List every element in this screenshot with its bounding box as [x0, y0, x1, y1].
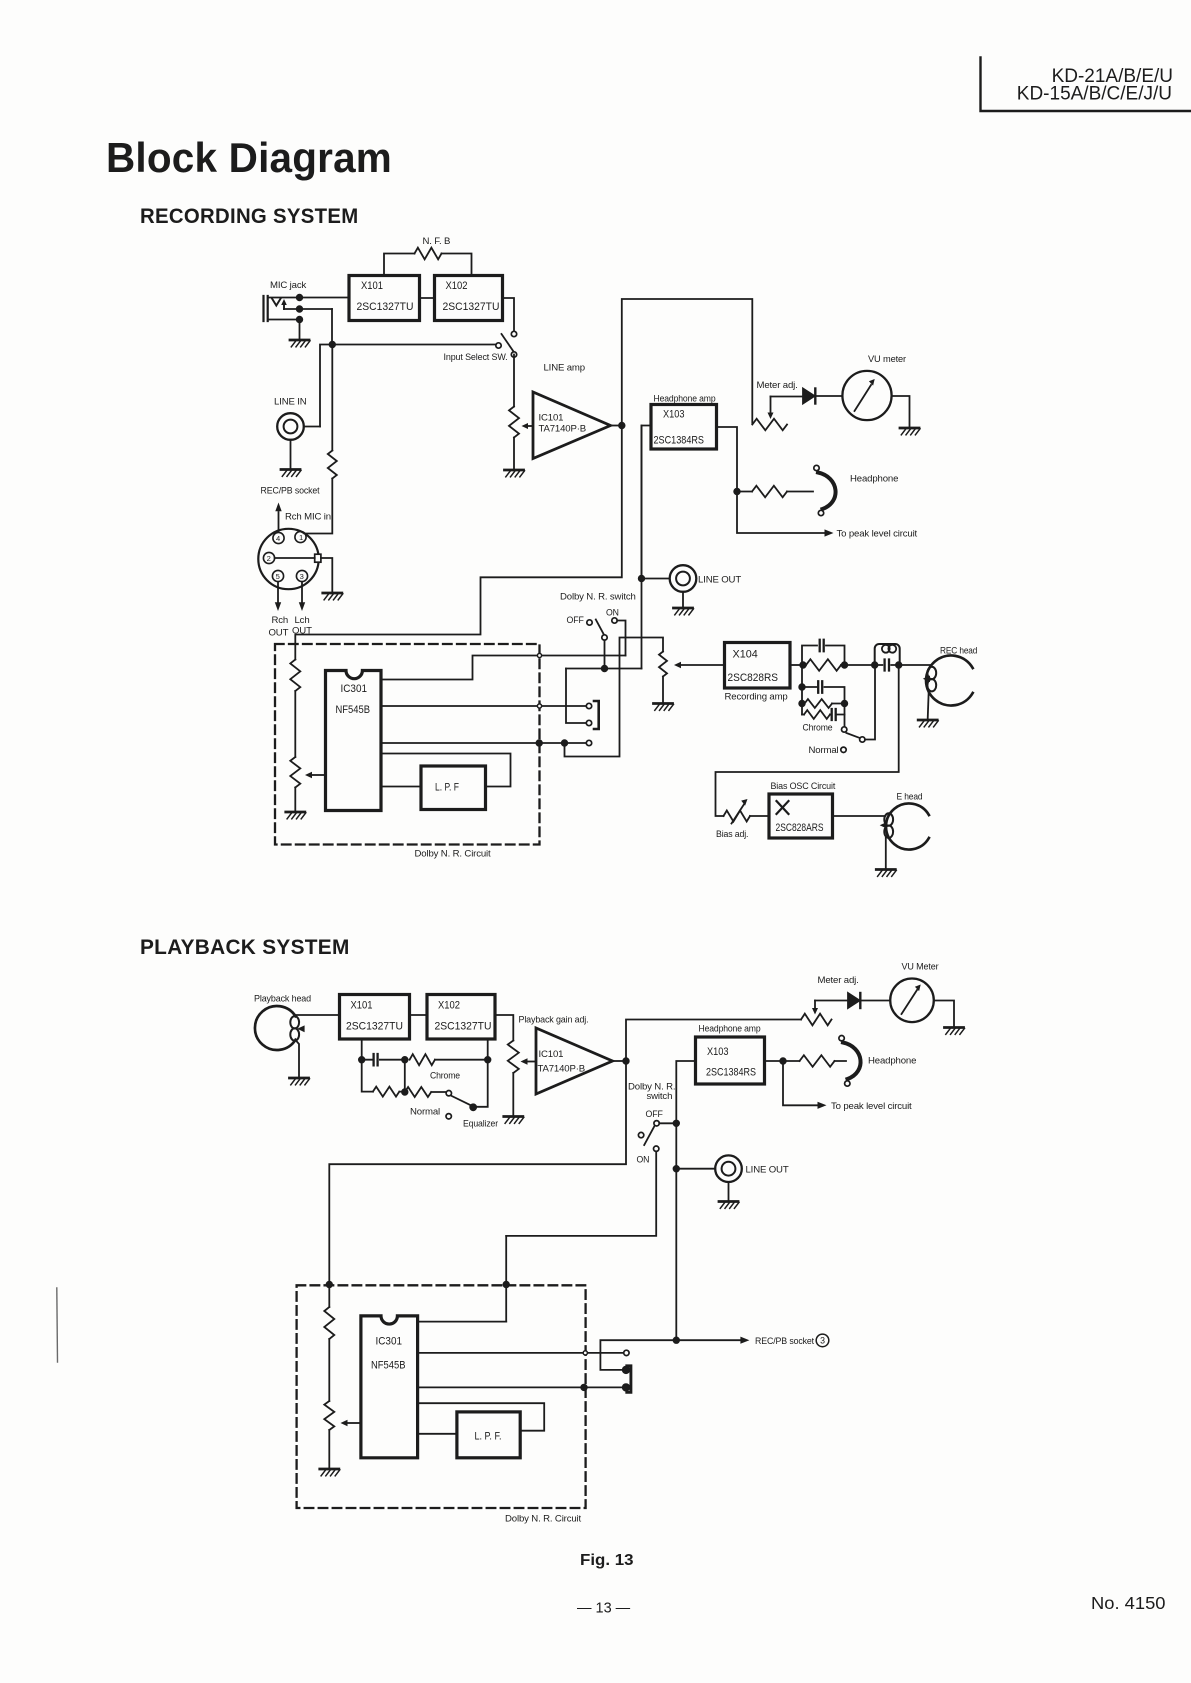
svg-text:1: 1: [299, 533, 303, 542]
wire bias feed: [716, 665, 899, 816]
node: REC/PB junction: [674, 1337, 680, 1343]
resistor on Rch MIC line: [305, 345, 337, 534]
connector REC/PB contacts (recording): [586, 701, 598, 746]
node: OFF junction: [674, 1121, 680, 1127]
op-amp IC101 (playback): [536, 1028, 613, 1094]
wire X101-X102 (playback): [410, 1014, 428, 1016]
arrow Lch OUT down: [292, 582, 312, 637]
headphone symbol: [814, 465, 898, 515]
svg-text:X102: X102: [438, 1000, 460, 1012]
wire to REC/PB contact: [566, 669, 586, 724]
wire diode to VU meter: [815, 395, 842, 397]
svg-text:REC/PB socket: REC/PB socket: [755, 1336, 814, 1347]
ground (LINE OUT): [674, 592, 694, 615]
node: border marker B (playback): [583, 1351, 587, 1355]
wire to LINE OUT (playback): [676, 1168, 715, 1170]
capacitor X101 eq branch: [362, 1039, 405, 1065]
potentiometer Meter adj.: [752, 380, 797, 430]
meter: VU Meter (playback): [890, 962, 939, 1023]
svg-text:5: 5: [276, 572, 280, 581]
wire X103 output: [717, 427, 738, 492]
node: eq a: [359, 1057, 365, 1063]
wire eq right rail down: [476, 1060, 488, 1107]
svg-text:MIC jack: MIC jack: [270, 280, 306, 291]
wire IC301 pin E to LPF in: [381, 786, 421, 788]
potentiometer Bias adj.: [716, 799, 750, 840]
wire: MIC top contact to X101: [300, 297, 350, 299]
wire X101-X102: [420, 297, 435, 299]
wire IC301 pin C to contact: [381, 742, 586, 744]
svg-text:Headphone: Headphone: [850, 474, 898, 485]
ground (VU meter): [900, 428, 920, 435]
resistor+capacitor chrome row C: [802, 704, 845, 727]
node: border crossing bus: [327, 1282, 333, 1288]
svg-text:2SC1327TU: 2SC1327TU: [443, 301, 500, 313]
oscillator Bias OSC Circuit: [769, 781, 836, 838]
wire OFF contact to node: [659, 1122, 676, 1124]
svg-text:Playback gain adj.: Playback gain adj.: [519, 1015, 589, 1026]
node: chrome rail b: [799, 701, 805, 707]
svg-text:LINE amp: LINE amp: [544, 363, 585, 374]
capacitor C top (rec eq): [802, 640, 845, 665]
node: chrome right: [842, 701, 848, 707]
svg-text:Dolby N. R. Circuit: Dolby N. R. Circuit: [415, 849, 492, 860]
node: headphone branch (playback): [780, 1058, 786, 1064]
ground (dolby pot playback): [320, 1469, 340, 1476]
E head: [880, 792, 929, 850]
ground (MIC jack): [290, 320, 310, 347]
node: headphone branch: [734, 489, 740, 495]
svg-text:OUT: OUT: [269, 628, 289, 639]
svg-text:Fig. 13: Fig. 13: [580, 1552, 634, 1569]
svg-text:N. F. B: N. F. B: [423, 236, 451, 247]
svg-text:Headphone: Headphone: [868, 1056, 916, 1067]
resistor R main (rec eq): [803, 659, 845, 671]
node: eq d: [402, 1089, 408, 1095]
svg-text:E head: E head: [897, 792, 923, 803]
svg-text:X102: X102: [446, 280, 468, 292]
potentiometer dolby level (recording): [290, 757, 325, 811]
svg-text:Equalizer: Equalizer: [463, 1119, 499, 1130]
svg-text:3: 3: [820, 1336, 825, 1346]
svg-text:RECORDING SYSTEM: RECORDING SYSTEM: [140, 205, 359, 228]
wire pot to bias osc: [750, 815, 769, 817]
IC IC301 NF545B (playback): [361, 1316, 418, 1458]
svg-text:4: 4: [276, 534, 280, 543]
svg-text:2SC1327TU: 2SC1327TU: [357, 301, 414, 313]
wire switch common rail: [566, 668, 642, 670]
contact pin B open: [624, 1350, 629, 1355]
svg-text:2SC1384RS: 2SC1384RS: [706, 1067, 756, 1079]
filter L.P.F (recording): [421, 766, 486, 810]
wire op-amp output: [611, 425, 622, 427]
transistor X101 (playback): [340, 995, 410, 1040]
transistor X103 Headphone amp (playback): [696, 1024, 765, 1085]
ground (dolby pot recording): [286, 812, 306, 819]
svg-text:Dolby N. R. switch: Dolby N. R. switch: [560, 592, 636, 603]
wire playback head to X101: [295, 1014, 340, 1016]
svg-text:TA7140P·B: TA7140P·B: [539, 424, 587, 435]
dashed box Dolby N.R. Circuit (recording): [275, 644, 540, 845]
node: switch pivot junction: [602, 666, 608, 672]
wire VU meter to ground: [892, 396, 910, 427]
svg-text:Chrome: Chrome: [803, 723, 833, 734]
wire IC301 pin B (playback): [418, 1352, 624, 1354]
svg-text:Normal: Normal: [809, 745, 839, 756]
svg-text:X101: X101: [361, 280, 383, 292]
wire bias osc to E head: [833, 815, 885, 817]
svg-text:L. P. F.: L. P. F.: [475, 1431, 502, 1443]
wire dolby in riser (playback): [505, 1236, 507, 1322]
wire to REC head: [899, 664, 930, 666]
node: dashed border marker B: [537, 704, 541, 708]
resistor headphone (playback): [783, 1055, 846, 1067]
svg-text:Dolby N. R. Circuit: Dolby N. R. Circuit: [505, 1514, 582, 1525]
svg-text:X103: X103: [663, 409, 685, 421]
svg-text:Rch MIC in: Rch MIC in: [285, 512, 331, 523]
svg-text:L. P. F: L. P. F: [435, 782, 459, 794]
node: border junction C: [536, 740, 542, 746]
svg-text:REC/PB socket: REC/PB socket: [261, 486, 320, 497]
potentiometer Meter adj. (playback): [801, 975, 859, 1025]
node: chrome rail a: [799, 684, 805, 690]
svg-text:IC101: IC101: [539, 1049, 564, 1060]
headphone symbol (playback): [839, 1036, 916, 1087]
svg-text:Input Select SW.: Input Select SW.: [444, 352, 508, 363]
svg-text:To peak level circuit: To peak level circuit: [831, 1101, 912, 1112]
svg-text:Meter adj.: Meter adj.: [757, 380, 798, 391]
wire IC301 pin D (playback): [418, 1403, 545, 1431]
ground (REC level pot): [654, 704, 674, 711]
transformer bias trap: [875, 644, 900, 665]
node: bypass branch: [562, 740, 568, 746]
ground (REC/PB socket): [323, 593, 343, 600]
node: eq b: [402, 1057, 408, 1063]
svg-text:LINE IN: LINE IN: [274, 397, 307, 408]
meter: VU meter: [842, 354, 907, 420]
resistor N.F.B feedback: [384, 236, 472, 276]
potentiometer dolby level (playback): [324, 1401, 361, 1468]
svg-text:No. 4150: No. 4150: [1091, 1593, 1166, 1613]
wire bus up to meter adj: [622, 299, 753, 426]
svg-text:Headphone amp: Headphone amp: [654, 394, 716, 405]
svg-text:2SC1327TU: 2SC1327TU: [346, 1021, 403, 1033]
svg-text:2SC828ARS: 2SC828ARS: [776, 822, 824, 834]
wire to peak level (playback): [783, 1061, 912, 1112]
node: playback amp out: [623, 1058, 629, 1064]
svg-text:To peak level circuit: To peak level circuit: [837, 529, 918, 540]
connector: LINE OUT jack (playback): [715, 1155, 789, 1182]
wire IC301 pin B to contact: [381, 705, 586, 707]
node: line out junction: [639, 576, 645, 582]
arrow REC/PB socket: [740, 1334, 828, 1347]
connector: LINE OUT jack: [670, 565, 742, 592]
svg-text:OUT: OUT: [292, 626, 312, 637]
resistor dolby input (playback): [324, 1307, 334, 1401]
ground (LINE OUT playback): [719, 1182, 739, 1208]
switch: Dolby N.R. (recording): [560, 592, 636, 669]
svg-text:OFF: OFF: [646, 1109, 663, 1120]
wire to peak level circuit: [737, 492, 918, 540]
wire eq to transformer: [845, 664, 875, 666]
potentiometer REC level: [659, 652, 667, 703]
svg-text:LINE OUT: LINE OUT: [698, 575, 741, 586]
svg-text:switch: switch: [647, 1091, 673, 1102]
svg-text:X104: X104: [733, 649, 758, 661]
arrow pin4 REC/PB up: [275, 503, 281, 533]
svg-text:Block Diagram: Block Diagram: [106, 134, 392, 181]
wire bus down to dolby resistor (playback): [329, 1061, 626, 1307]
ground (E head): [876, 838, 896, 877]
IC IC301 NF545B (recording): [326, 671, 382, 811]
wire X102 bottom pin: [487, 1041, 489, 1060]
svg-text:2SC1384RS: 2SC1384RS: [654, 435, 705, 447]
wire: LINE IN / MIC ring to switch: [320, 345, 496, 427]
ground (LINE amp pot): [505, 470, 525, 477]
svg-text:IC301: IC301: [341, 683, 368, 695]
wire IC301 pin D to LPF out: [381, 754, 511, 787]
MIC jack: [264, 295, 333, 323]
wire IC301 pin A (playback): [418, 1321, 507, 1323]
ground (gain pot): [504, 1117, 524, 1124]
wire VU to ground (playback): [934, 1001, 954, 1027]
wire bypass to rec level pot: [565, 638, 664, 757]
wire X104 output: [790, 664, 803, 666]
svg-text:VU meter: VU meter: [868, 354, 907, 365]
connector: LINE IN jack: [274, 397, 320, 440]
wire op-amp out (playback): [613, 1060, 627, 1062]
node: eq c: [485, 1057, 491, 1063]
svg-text:3: 3: [300, 572, 304, 581]
ground (VU playback): [945, 1028, 965, 1035]
transistor X104 Recording amp: [725, 643, 791, 703]
wire bus down-left to dolby resistor: [295, 426, 622, 660]
wire ON contact to dolby in: [617, 621, 625, 656]
node: line amp output: [619, 423, 625, 429]
switch: Dolby N.R. (playback): [628, 1082, 675, 1166]
resistor headphone feed: [737, 486, 813, 498]
switch: Input Select SW: [444, 331, 517, 363]
wire REC/PB socket out: [600, 1340, 741, 1370]
svg-text:ON: ON: [606, 608, 619, 619]
svg-text:OFF: OFF: [567, 615, 584, 626]
transistor X101: [349, 276, 420, 321]
potentiometer at LINE amp input: [509, 355, 533, 470]
connector REC/PB contacts (playback): [623, 1366, 631, 1393]
wire bus to meter (playback): [626, 1020, 801, 1062]
svg-text:NF545B: NF545B: [336, 704, 371, 716]
svg-text:PLAYBACK SYSTEM: PLAYBACK SYSTEM: [140, 936, 350, 959]
transistor X102: [435, 276, 503, 321]
wire IC301 pin C (playback): [418, 1386, 624, 1388]
wire X104 input arrow: [674, 662, 725, 668]
svg-text:2: 2: [267, 554, 271, 563]
wire ON contact down to dolby: [506, 1152, 656, 1236]
dashed box Dolby N.R. Circuit (playback): [297, 1285, 586, 1508]
svg-text:Normal: Normal: [410, 1107, 440, 1118]
wire X102 to gain pot: [495, 1015, 513, 1041]
resistor dolby input (recording): [290, 660, 300, 758]
wire X102 to input select switch: [503, 298, 515, 331]
svg-text:Playback head: Playback head: [254, 994, 311, 1005]
resistor chrome eq (playback): [410, 1054, 488, 1081]
svg-text:2SC828RS: 2SC828RS: [728, 672, 779, 684]
svg-text:Chrome: Chrome: [430, 1071, 460, 1082]
diode: [803, 389, 815, 404]
wire X103 input (playback): [676, 1061, 695, 1340]
svg-text:TA7140P·B: TA7140P·B: [538, 1064, 586, 1075]
arrow Rch OUT down: [269, 582, 289, 639]
wire eq d riser: [404, 1060, 406, 1092]
playback head: [254, 994, 311, 1051]
header bracket rule: [981, 58, 1191, 112]
switch Equalizer: [410, 1091, 499, 1130]
svg-text:Rch: Rch: [272, 615, 289, 626]
node: mic ring junction: [330, 309, 336, 347]
svg-text:ON: ON: [637, 1155, 650, 1166]
wire wiper to diode (playback): [815, 1000, 848, 1002]
wire X103 output (playback): [765, 1060, 784, 1062]
svg-text:IC101: IC101: [539, 413, 564, 424]
node: dashed border marker A: [537, 653, 541, 657]
svg-text:X103: X103: [707, 1046, 729, 1058]
svg-text:Headphone amp: Headphone amp: [699, 1024, 761, 1035]
node: line out junction (playback): [674, 1166, 680, 1172]
svg-text:Recording amp: Recording amp: [725, 692, 788, 703]
svg-text:Bias OSC Circuit: Bias OSC Circuit: [771, 781, 836, 792]
resistor normal eq 1: [373, 1087, 405, 1097]
svg-text:REC head: REC head: [940, 646, 977, 657]
node: border crossing dolby in: [503, 1282, 509, 1288]
switch Chrome/Normal: [803, 665, 876, 756]
wire IC301 pin A to ON contact: [381, 656, 626, 680]
wire IC301 pin E (playback): [418, 1433, 457, 1435]
svg-text:2SC1327TU: 2SC1327TU: [435, 1021, 492, 1033]
wire to LINE OUT jack: [642, 578, 670, 580]
svg-text:Meter adj.: Meter adj.: [818, 975, 859, 986]
svg-text:VU Meter: VU Meter: [902, 962, 940, 973]
node: transformer left: [872, 662, 878, 668]
scan artifact line: [56, 1288, 59, 1362]
wire wiper to diode: [771, 396, 804, 398]
wire LINE OUT node riser: [641, 426, 643, 669]
node: border junction C (playback): [581, 1385, 587, 1391]
wire chrome network left rail: [801, 665, 803, 715]
svg-text:IC301: IC301: [376, 1336, 403, 1348]
node: eq right: [842, 662, 848, 668]
node: X104 out: [800, 662, 806, 668]
svg-text:LINE OUT: LINE OUT: [746, 1165, 789, 1176]
capacitor chrome row A: [802, 681, 845, 703]
wire eq lower row: [362, 1060, 373, 1092]
svg-text:KD-15A/B/C/E/J/U: KD-15A/B/C/E/J/U: [1017, 84, 1172, 105]
op-amp IC101 LINE amp: [533, 363, 611, 459]
REC head: [923, 646, 978, 706]
transistor X102 (playback): [427, 995, 495, 1040]
filter L.P.F (playback): [457, 1412, 520, 1458]
svg-text:— 13 —: — 13 —: [577, 1601, 631, 1617]
svg-text:X101: X101: [351, 1000, 373, 1012]
connector REC/PB socket (DIN): [258, 486, 331, 590]
capacitor in bias trap: [875, 660, 899, 671]
transistor X103 Headphone amp: [651, 394, 717, 450]
ground (REC head): [918, 691, 938, 727]
wire pin2 to ground: [321, 558, 332, 592]
ground (LINE IN): [281, 440, 301, 477]
resistor normal eq 2: [405, 1087, 446, 1097]
svg-text:Lch: Lch: [295, 615, 310, 626]
potentiometer Playback gain adj.: [508, 1015, 589, 1116]
wire X103 input: [642, 426, 652, 577]
resistor chrome row B: [802, 699, 845, 708]
ground (playback head): [290, 1041, 310, 1085]
svg-text:Bias adj.: Bias adj.: [716, 829, 748, 840]
svg-text:NF545B: NF545B: [371, 1360, 406, 1372]
node: head node: [896, 662, 902, 668]
wire diode to VU (playback): [860, 1000, 890, 1002]
diode (playback): [848, 993, 860, 1008]
